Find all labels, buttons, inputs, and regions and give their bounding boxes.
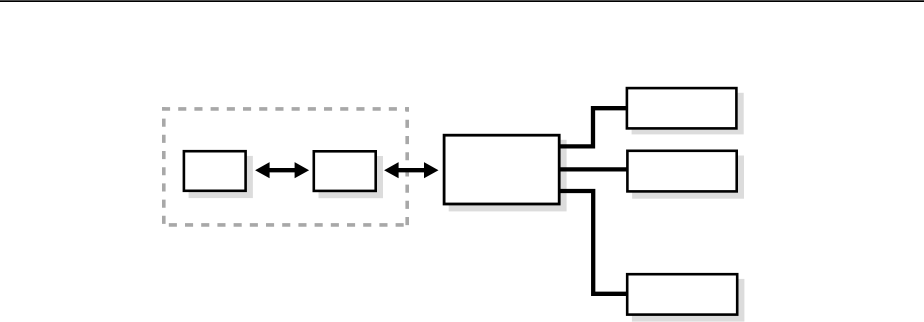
dashed group boundary top edge xyxy=(162,107,409,111)
middle-right box xyxy=(627,151,736,192)
dashed group boundary bottom edge xyxy=(162,223,409,227)
elbow connector to top-right box xyxy=(558,108,627,146)
top-right box xyxy=(627,88,737,128)
shadow of bottom-right box xyxy=(632,279,745,322)
shadow of top-right box xyxy=(632,93,744,135)
shadow of box 1 xyxy=(189,156,253,198)
center box xyxy=(444,135,559,204)
dashed group boundary left edge xyxy=(162,107,166,227)
box 1 (left small box) xyxy=(184,151,246,191)
shadow of center box xyxy=(449,140,567,212)
shadow of box 2 xyxy=(319,156,384,198)
shadow of middle-right box xyxy=(632,156,744,199)
straight connector to middle-right box xyxy=(558,167,628,171)
box 2 (second small box) xyxy=(314,151,376,191)
top horizontal rule xyxy=(0,0,924,2)
dashed group boundary right edge xyxy=(405,107,409,227)
bottom-right box xyxy=(627,274,737,314)
elbow connector to bottom-right box xyxy=(558,191,627,294)
double arrow between box 2 and center box xyxy=(384,162,438,178)
double arrow between box 1 and box 2 xyxy=(255,162,309,178)
